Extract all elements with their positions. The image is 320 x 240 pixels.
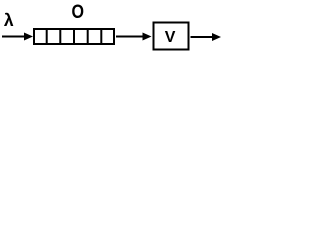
wire middle arrow shaft <box>116 36 146 38</box>
svg-text:λ: λ <box>4 10 14 30</box>
svg-text:O: O <box>72 2 85 23</box>
svg-text:V: V <box>165 29 176 46</box>
output arrow head <box>212 33 221 41</box>
queue box Q1 <box>34 29 114 44</box>
wire input arrow shaft <box>2 36 27 38</box>
server box V1 <box>154 23 189 50</box>
queue divider 3 <box>73 29 75 44</box>
queue divider 2 <box>59 29 61 44</box>
queue divider 4 <box>87 29 89 44</box>
queue divider 1 <box>46 29 48 44</box>
queue divider 5 <box>100 29 102 44</box>
input arrow head <box>24 33 33 41</box>
wire output arrow shaft <box>191 36 216 38</box>
middle arrow head <box>143 33 152 41</box>
